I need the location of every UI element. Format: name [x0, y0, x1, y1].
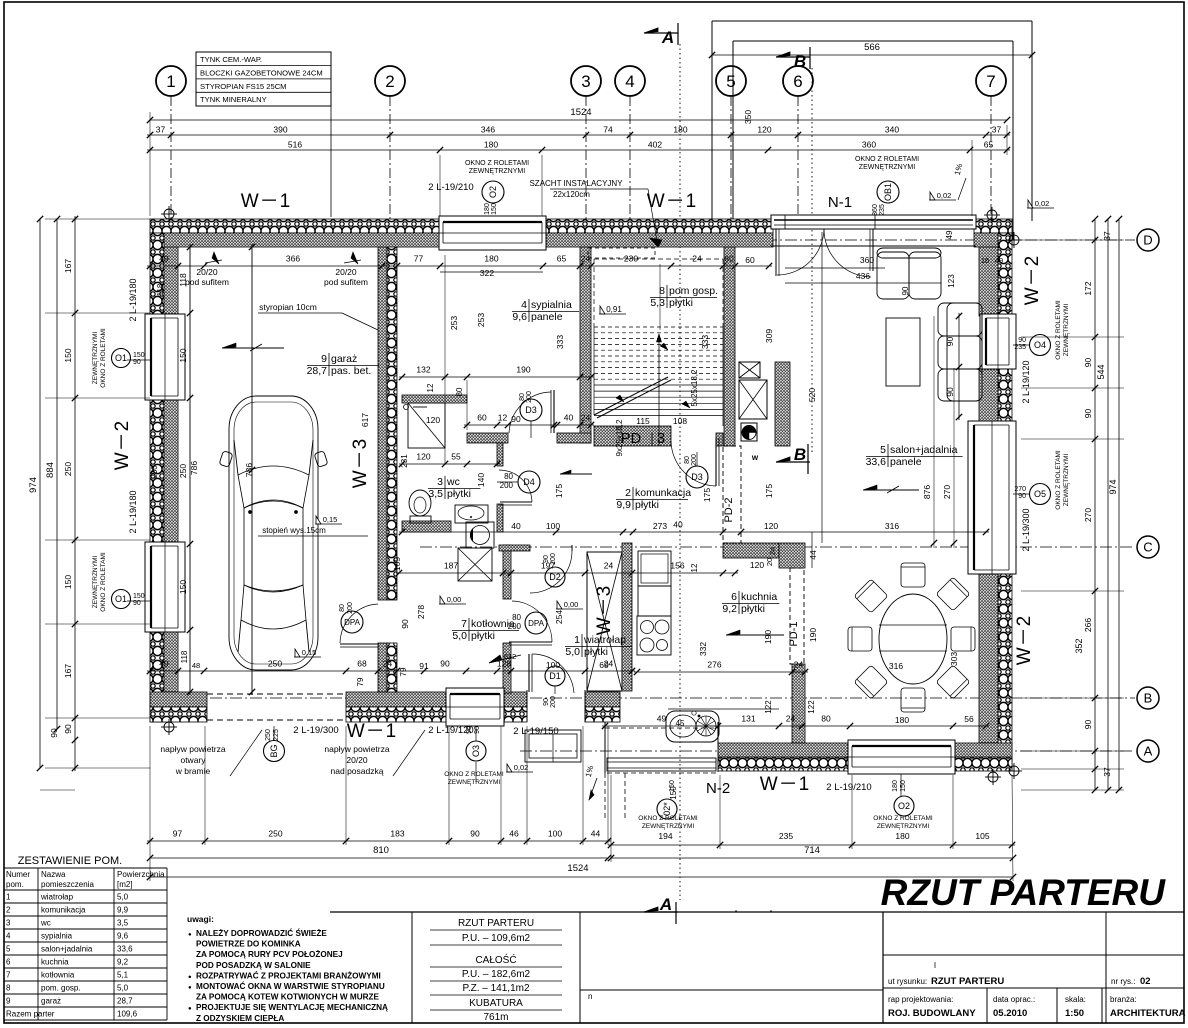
svg-text:5: 5	[726, 72, 735, 91]
svg-text:ZA POMOCĄ KOTEW KOTWIONYCH W M: ZA POMOCĄ KOTEW KOTWIONYCH W MURZE	[196, 993, 380, 1002]
svg-text:566: 566	[864, 42, 880, 53]
svg-text:20/20: 20/20	[196, 267, 218, 277]
svg-text:68: 68	[357, 659, 367, 669]
svg-text:komunkacja: komunkacja	[635, 487, 691, 499]
svg-text:90: 90	[474, 726, 481, 734]
svg-text:516: 516	[288, 140, 302, 150]
svg-text:235: 235	[879, 204, 886, 216]
svg-text:90: 90	[945, 387, 955, 397]
svg-text:150: 150	[178, 348, 188, 362]
svg-text:O5: O5	[1034, 489, 1046, 499]
svg-text:▪: ▪	[770, 909, 772, 915]
svg-text:175: 175	[702, 488, 712, 502]
svg-text:TYNK CEM.-WAP.: TYNK CEM.-WAP.	[200, 55, 262, 64]
svg-text:33,6: 33,6	[866, 456, 887, 468]
svg-text:270: 270	[1014, 486, 1026, 493]
svg-text:90: 90	[1083, 720, 1093, 730]
svg-text:W－3: W－3	[594, 585, 615, 636]
svg-text:352: 352	[1074, 638, 1084, 653]
svg-text:P.U. – 109,6m2: P.U. – 109,6m2	[462, 933, 531, 944]
svg-text:4: 4	[6, 932, 11, 941]
svg-text:180: 180	[484, 140, 498, 150]
svg-text:W－1: W－1	[760, 774, 811, 795]
svg-text:ZEWNĘTRZNYMI: ZEWNĘTRZNYMI	[859, 164, 915, 171]
svg-text:ut rysunku:: ut rysunku:	[888, 977, 927, 986]
svg-text:PD-1: PD-1	[788, 621, 800, 646]
svg-text:0,02: 0,02	[1035, 199, 1050, 208]
svg-text:322: 322	[480, 268, 494, 278]
svg-text:20: 20	[765, 558, 774, 566]
svg-text:5,3: 5,3	[650, 297, 665, 309]
svg-text:ZEWNĘTRZNYMI: ZEWNĘTRZNYMI	[448, 779, 501, 786]
svg-text:płytki: płytki	[635, 499, 659, 511]
svg-text:270: 270	[1083, 508, 1093, 522]
svg-text:02: 02	[1140, 976, 1151, 987]
svg-text:ARCHITEKTURA: ARCHITEKTURA	[1110, 1008, 1186, 1019]
svg-text:1: 1	[166, 72, 175, 91]
svg-text:180: 180	[484, 254, 498, 264]
svg-text:W－2: W－2	[1022, 255, 1043, 306]
svg-text:kuchnia: kuchnia	[41, 958, 69, 967]
svg-text:60: 60	[477, 413, 487, 423]
svg-text:100: 100	[548, 829, 562, 839]
svg-text:Powierzchnia: Powierzchnia	[117, 870, 165, 879]
svg-text:pom. gosp.: pom. gosp.	[41, 984, 81, 993]
svg-text:254: 254	[554, 610, 564, 624]
svg-text:49: 49	[945, 230, 954, 239]
svg-text:5: 5	[880, 444, 886, 456]
svg-text:253: 253	[476, 313, 486, 327]
svg-text:2 L-19/180: 2 L-19/180	[128, 490, 138, 533]
svg-text:273: 273	[653, 521, 667, 531]
svg-text:kuchnia: kuchnia	[741, 591, 777, 603]
svg-text:pomieszczenia: pomieszczenia	[41, 880, 94, 889]
svg-text:115: 115	[636, 416, 650, 426]
svg-text:190: 190	[763, 630, 773, 644]
svg-text:180: 180	[892, 780, 899, 792]
svg-text:520: 520	[807, 388, 817, 402]
svg-text:270: 270	[942, 485, 952, 499]
svg-text:OKNO Z ROLETAMI: OKNO Z ROLETAMI	[873, 815, 933, 822]
svg-text:350: 350	[743, 110, 753, 124]
svg-text:49: 49	[159, 254, 169, 264]
svg-text:180: 180	[484, 203, 491, 215]
svg-text:876: 876	[922, 485, 932, 499]
svg-text:OKNO Z ROLETAMI: OKNO Z ROLETAMI	[855, 156, 919, 163]
svg-text:P.U. – 182,6m2: P.U. – 182,6m2	[462, 969, 531, 980]
svg-text:O4: O4	[1034, 340, 1046, 350]
svg-text:W－1: W－1	[647, 191, 698, 212]
svg-text:22x120cm: 22x120cm	[553, 190, 590, 199]
svg-text:P.Z. – 141,1m2: P.Z. – 141,1m2	[462, 983, 530, 994]
svg-text:266: 266	[1083, 618, 1093, 632]
svg-text:2 L-19/150: 2 L-19/150	[513, 726, 558, 737]
svg-text:3: 3	[657, 431, 665, 447]
svg-text:250: 250	[63, 462, 73, 476]
svg-text:05.2010: 05.2010	[993, 1008, 1027, 1019]
svg-text:60: 60	[745, 255, 755, 265]
svg-text:B: B	[794, 52, 806, 71]
svg-text:40: 40	[511, 521, 521, 531]
svg-text:2: 2	[6, 906, 11, 915]
svg-text:132: 132	[416, 365, 430, 375]
svg-text:ZEWNĘTRZNYMI: ZEWNĘTRZNYMI	[92, 332, 99, 385]
svg-text:0,15: 0,15	[302, 648, 317, 657]
svg-text:▪: ▪	[735, 909, 737, 915]
svg-text:118: 118	[156, 283, 165, 296]
svg-text:POD POSADZKĄ W SALONIE: POD POSADZKĄ W SALONIE	[196, 961, 311, 970]
svg-text:49: 49	[657, 714, 667, 724]
svg-text:150: 150	[133, 593, 145, 600]
svg-text:NALEŻY DOPROWADZIĆ ŚWIEŻE: NALEŻY DOPROWADZIĆ ŚWIEŻE	[196, 927, 327, 938]
svg-text:C: C	[1143, 540, 1152, 555]
svg-text:Z ODZYSKIEM CIEPŁA: Z ODZYSKIEM CIEPŁA	[196, 1014, 284, 1023]
svg-text:0,02: 0,02	[937, 191, 952, 200]
svg-text:90: 90	[400, 619, 410, 629]
svg-text:24: 24	[383, 659, 393, 669]
svg-text:ZEWNĘTRZNYMI: ZEWNĘTRZNYMI	[877, 823, 930, 830]
svg-text:1524: 1524	[567, 863, 588, 874]
svg-text:12: 12	[690, 563, 699, 572]
svg-text:46: 46	[509, 829, 519, 839]
svg-text:Nazwa: Nazwa	[41, 870, 66, 879]
svg-text:2 L-19/210: 2 L-19/210	[826, 782, 871, 793]
svg-text:276: 276	[707, 660, 721, 670]
svg-text:131: 131	[741, 714, 755, 724]
svg-text:80: 80	[512, 613, 521, 622]
svg-text:02*: 02*	[662, 802, 672, 816]
svg-text:styropian 10cm: styropian 10cm	[259, 302, 317, 312]
svg-text:180: 180	[895, 715, 909, 725]
svg-text:5,0: 5,0	[117, 984, 129, 993]
svg-text:360: 360	[862, 140, 876, 150]
svg-text:200: 200	[508, 622, 522, 631]
svg-text:49: 49	[159, 659, 169, 669]
svg-text:4: 4	[625, 72, 634, 91]
svg-text:65: 65	[557, 254, 567, 264]
svg-text:90: 90	[49, 728, 59, 738]
svg-text:90: 90	[1018, 337, 1026, 344]
svg-text:74: 74	[603, 125, 613, 135]
svg-text:9: 9	[321, 353, 327, 365]
svg-text:0,00: 0,00	[564, 600, 579, 609]
svg-text:120: 120	[416, 452, 430, 462]
svg-text:2 L-19/300: 2 L-19/300	[293, 725, 338, 736]
svg-text:49: 49	[995, 256, 1003, 265]
svg-text:109: 109	[392, 557, 402, 571]
svg-text:12: 12	[426, 383, 435, 392]
svg-text:wc: wc	[40, 919, 51, 928]
svg-text:ROJ. BUDOWLANY: ROJ. BUDOWLANY	[888, 1008, 976, 1019]
svg-text:kotłownia: kotłownia	[41, 971, 75, 980]
svg-text:1:50: 1:50	[1065, 1008, 1084, 1019]
svg-text:płytki: płytki	[471, 630, 495, 642]
svg-text:salon+jadalnia: salon+jadalnia	[890, 444, 958, 456]
svg-text:KUBATURA: KUBATURA	[469, 998, 523, 1009]
svg-text:ZEWNĘTRZNYMI: ZEWNĘTRZNYMI	[1063, 454, 1070, 507]
svg-text:24: 24	[604, 561, 614, 571]
svg-text:190: 190	[516, 365, 530, 375]
svg-text:nr rys.:: nr rys.:	[1111, 977, 1135, 986]
svg-text:175: 175	[764, 484, 774, 498]
svg-text:BG: BG	[269, 744, 279, 757]
svg-text:303: 303	[949, 652, 959, 666]
svg-text:W－1: W－1	[347, 721, 398, 742]
svg-text:9,9: 9,9	[616, 499, 631, 511]
svg-text:ZA POMOCĄ RURY PCV POŁOŻONEJ: ZA POMOCĄ RURY PCV POŁOŻONEJ	[196, 949, 343, 959]
svg-text:●: ●	[188, 1006, 192, 1012]
svg-text:810: 810	[373, 845, 389, 856]
svg-text:333: 333	[555, 335, 565, 349]
svg-text:90: 90	[543, 698, 550, 706]
svg-text:9,2: 9,2	[722, 603, 737, 615]
svg-text:W－3: W－3	[350, 438, 371, 489]
svg-text:200: 200	[526, 391, 533, 403]
svg-text:156: 156	[670, 561, 684, 571]
svg-text:309: 309	[764, 329, 774, 343]
svg-text:O3: O3	[471, 745, 481, 757]
svg-text:A: A	[659, 895, 672, 914]
svg-text:24: 24	[794, 660, 804, 670]
svg-text:STYROPIAN FS15 25CM: STYROPIAN FS15 25CM	[200, 82, 287, 91]
svg-text:pod sufitem: pod sufitem	[185, 277, 229, 287]
svg-text:346: 346	[481, 125, 495, 135]
svg-text:150: 150	[63, 348, 73, 362]
svg-text:77: 77	[414, 254, 424, 264]
svg-text:197: 197	[541, 561, 555, 571]
svg-text:235: 235	[779, 831, 793, 841]
svg-text:90: 90	[63, 724, 73, 734]
svg-text:A: A	[1144, 744, 1153, 759]
svg-text:230: 230	[624, 254, 638, 264]
svg-text:37: 37	[1102, 767, 1112, 777]
svg-text:402: 402	[648, 140, 662, 150]
svg-text:80: 80	[821, 714, 831, 724]
svg-text:9x25x18,2: 9x25x18,2	[615, 419, 624, 456]
svg-text:OKNO Z ROLETAMI: OKNO Z ROLETAMI	[638, 815, 698, 822]
svg-text:340: 340	[885, 125, 899, 135]
svg-text:6: 6	[793, 72, 802, 91]
svg-text:N-2: N-2	[706, 780, 730, 797]
svg-text:wc: wc	[446, 476, 460, 488]
svg-text:45: 45	[676, 719, 685, 728]
svg-text:DPA: DPA	[344, 618, 361, 627]
svg-text:44: 44	[808, 550, 818, 560]
svg-text:100: 100	[546, 521, 560, 531]
svg-text:n: n	[588, 992, 592, 1001]
svg-text:RZUT PARTERU: RZUT PARTERU	[931, 976, 1004, 987]
svg-text:płytki: płytki	[447, 488, 471, 500]
svg-text:płytki: płytki	[669, 297, 693, 309]
svg-text:9,9: 9,9	[117, 906, 129, 915]
svg-text:90: 90	[1083, 358, 1093, 368]
svg-text:37: 37	[1102, 231, 1112, 241]
svg-text:BLOCZKI GAZOBETONOWE 24CM: BLOCZKI GAZOBETONOWE 24CM	[200, 68, 323, 77]
svg-text:253: 253	[449, 316, 459, 330]
svg-text:436: 436	[856, 271, 870, 281]
svg-text:otwary: otwary	[180, 755, 206, 765]
svg-text:56: 56	[964, 714, 974, 724]
svg-text:D4: D4	[523, 477, 535, 487]
svg-text:●: ●	[188, 932, 192, 938]
svg-text:O1: O1	[115, 353, 127, 363]
svg-text:278: 278	[416, 605, 426, 619]
svg-text:55: 55	[451, 452, 461, 462]
svg-text:ZEWNĘTRZNYMI: ZEWNĘTRZNYMI	[469, 168, 525, 175]
svg-text:250: 250	[268, 659, 282, 669]
svg-text:garaż: garaż	[41, 997, 61, 1006]
svg-text:120: 120	[757, 125, 771, 135]
svg-text:pom.: pom.	[6, 880, 24, 889]
svg-text:B: B	[1144, 691, 1153, 706]
svg-text:POWIETRZE DO KOMINKA: POWIETRZE DO KOMINKA	[196, 940, 301, 949]
svg-text:231: 231	[400, 454, 409, 468]
svg-text:pas. bet.: pas. bet.	[331, 365, 371, 377]
svg-text:786: 786	[189, 461, 199, 475]
svg-text:120: 120	[764, 521, 778, 531]
svg-text:napływ powietrza: napływ powietrza	[324, 744, 389, 754]
svg-text:Razem parter: Razem parter	[6, 1010, 55, 1019]
svg-text:24: 24	[768, 547, 777, 555]
svg-text:366: 366	[286, 254, 300, 264]
svg-text:194: 194	[658, 831, 672, 841]
svg-text:D2: D2	[549, 572, 561, 582]
svg-text:O1: O1	[115, 594, 127, 604]
svg-text:20/20: 20/20	[335, 267, 357, 277]
svg-text:OKNO Z ROLETAMI: OKNO Z ROLETAMI	[100, 328, 107, 388]
svg-text:D: D	[1143, 233, 1152, 248]
svg-text:360: 360	[872, 204, 879, 216]
svg-text:167: 167	[63, 664, 73, 678]
svg-text:180: 180	[673, 125, 687, 135]
svg-text:40: 40	[564, 413, 574, 423]
svg-text:0,00: 0,00	[447, 595, 462, 604]
svg-text:0,15: 0,15	[323, 515, 338, 524]
svg-text:105: 105	[975, 831, 989, 841]
svg-text:24: 24	[786, 714, 796, 724]
svg-text:90: 90	[1083, 409, 1093, 419]
svg-text:OKNO Z ROLETAMI: OKNO Z ROLETAMI	[444, 771, 504, 778]
svg-text:60: 60	[724, 254, 734, 264]
svg-text:97: 97	[173, 829, 183, 839]
svg-text:3: 3	[6, 919, 11, 928]
svg-text:2 L-19/120: 2 L-19/120	[1021, 360, 1031, 403]
svg-text:974: 974	[1108, 479, 1118, 494]
svg-text:80: 80	[519, 393, 526, 401]
svg-text:7: 7	[986, 72, 995, 91]
svg-text:150: 150	[178, 580, 188, 594]
svg-text:CAŁOŚĆ: CAŁOŚĆ	[475, 953, 516, 966]
svg-text:79: 79	[356, 677, 365, 686]
svg-text:150: 150	[133, 352, 145, 359]
svg-text:250: 250	[268, 829, 282, 839]
svg-text:W－2: W－2	[112, 420, 133, 471]
svg-text:7: 7	[6, 971, 11, 980]
svg-text:28,7: 28,7	[307, 365, 328, 377]
svg-text:panele: panele	[531, 311, 563, 323]
svg-text:D3: D3	[525, 405, 537, 415]
svg-text:172: 172	[1083, 281, 1093, 295]
svg-text:544: 544	[1096, 364, 1106, 379]
svg-text:5,1: 5,1	[117, 971, 129, 980]
svg-text:W－1: W－1	[241, 191, 292, 212]
svg-text:175: 175	[554, 484, 564, 498]
svg-text:2 L-19/120: 2 L-19/120	[428, 725, 473, 736]
svg-text:40: 40	[673, 520, 683, 530]
svg-text:sypialnia: sypialnia	[531, 299, 572, 311]
svg-text:100: 100	[546, 660, 560, 670]
svg-text:24: 24	[692, 254, 702, 264]
svg-text:W－2: W－2	[1014, 615, 1035, 666]
svg-text:A: A	[661, 28, 674, 47]
svg-text:data oprac.:: data oprac.:	[993, 995, 1035, 1004]
svg-text:skala:: skala:	[1065, 995, 1086, 1004]
svg-text:33,6: 33,6	[117, 945, 133, 954]
svg-text:37: 37	[992, 125, 1002, 135]
svg-text:nad posadzką: nad posadzką	[331, 766, 384, 776]
svg-text:branża:: branża:	[1110, 995, 1137, 1004]
svg-text:O2: O2	[898, 801, 910, 811]
svg-text:[m2]: [m2]	[117, 880, 133, 889]
svg-text:250: 250	[265, 729, 272, 741]
svg-text:OB1: OB1	[883, 183, 893, 201]
svg-text:uwagi:: uwagi:	[187, 914, 214, 924]
svg-text:1: 1	[574, 634, 580, 646]
svg-text:90: 90	[945, 337, 955, 347]
svg-text:płytki: płytki	[584, 646, 608, 658]
svg-text:974: 974	[28, 477, 39, 493]
svg-text:109,6: 109,6	[117, 1010, 138, 1019]
svg-text:B: B	[794, 445, 806, 464]
svg-text:2: 2	[625, 487, 631, 499]
svg-text:N-1: N-1	[828, 194, 852, 211]
svg-text:80: 80	[684, 456, 691, 464]
svg-text:180: 180	[895, 831, 909, 841]
svg-text:3,5: 3,5	[117, 919, 129, 928]
svg-text:120: 120	[426, 415, 440, 425]
svg-text:rap projektowania:: rap projektowania:	[888, 995, 953, 1004]
svg-text:390: 390	[273, 125, 287, 135]
svg-text:250: 250	[150, 465, 159, 479]
svg-text:I: I	[934, 961, 936, 970]
svg-text:16: 16	[981, 256, 989, 265]
svg-text:69: 69	[599, 660, 609, 670]
svg-text:OKNO Z ROLETAMI: OKNO Z ROLETAMI	[1055, 450, 1062, 510]
svg-text:150: 150	[669, 780, 676, 792]
svg-text:płytki: płytki	[741, 603, 765, 615]
svg-text:2 L-19/180: 2 L-19/180	[128, 278, 138, 321]
svg-text:ZEWNĘTRZNYMI: ZEWNĘTRZNYMI	[642, 823, 695, 830]
svg-text:316: 316	[889, 661, 903, 671]
svg-text:12: 12	[498, 413, 508, 423]
svg-text:617: 617	[360, 413, 370, 427]
svg-text:napływ powietrza: napływ powietrza	[160, 744, 225, 754]
svg-text:3,5: 3,5	[428, 488, 443, 500]
svg-text:44: 44	[591, 829, 601, 839]
svg-text:PROJEKTUJE SIĘ WENTYLACJĘ MECH: PROJEKTUJE SIĘ WENTYLACJĘ MECHANICZNĄ	[196, 1003, 388, 1012]
svg-text:91: 91	[419, 661, 429, 671]
svg-text:w: w	[751, 453, 759, 462]
svg-text:6: 6	[731, 591, 737, 603]
svg-text:761m: 761m	[483, 1012, 508, 1023]
svg-text:200: 200	[347, 602, 354, 614]
svg-text:123: 123	[947, 274, 956, 288]
svg-text:183: 183	[390, 829, 404, 839]
svg-text:333: 333	[700, 335, 710, 349]
svg-text:714: 714	[804, 845, 820, 856]
svg-text:2 L-19/300: 2 L-19/300	[1021, 508, 1031, 551]
svg-text:120: 120	[750, 560, 764, 570]
